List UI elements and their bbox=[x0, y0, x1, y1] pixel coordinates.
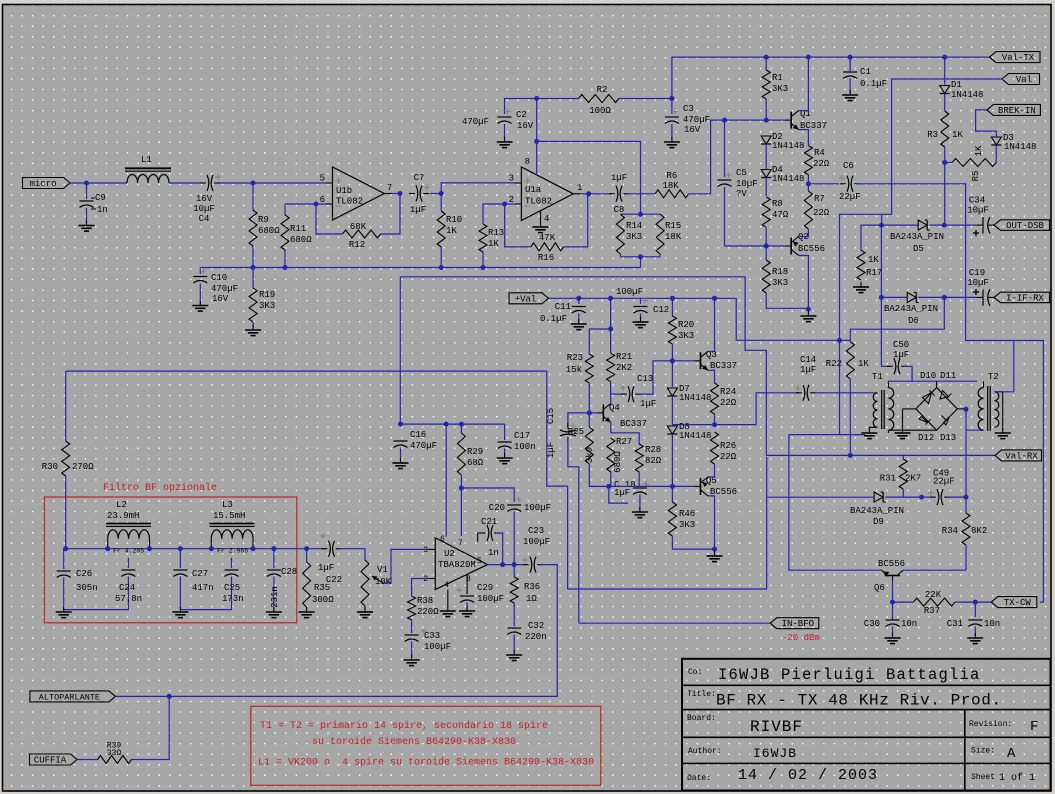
svg-text:C6: C6 bbox=[843, 161, 854, 171]
junction pin2 node bbox=[502, 202, 507, 207]
svg-text:33Ω: 33Ω bbox=[107, 749, 122, 758]
svg-text:C22: C22 bbox=[326, 575, 342, 585]
svg-text:C25: C25 bbox=[224, 583, 240, 593]
svg-text:D10: D10 bbox=[920, 371, 936, 381]
svg-text:R7: R7 bbox=[814, 194, 825, 204]
resistor R6 bbox=[655, 171, 688, 198]
transistor Q4 bbox=[597, 403, 647, 429]
junction Q2 gnd bbox=[806, 307, 811, 312]
transistor Q1 bbox=[785, 109, 827, 131]
wire IN-BFO to C15 bbox=[579, 622, 771, 624]
svg-text:1n: 1n bbox=[488, 548, 499, 558]
svg-text:1N4148: 1N4148 bbox=[679, 431, 711, 441]
wire Q2 base rail bbox=[725, 245, 786, 247]
svg-text:IN-BFO: IN-BFO bbox=[782, 619, 814, 629]
wire bridge to T2 bottom bbox=[966, 429, 984, 431]
ground under R35 bbox=[299, 607, 315, 618]
svg-text:22Ω: 22Ω bbox=[813, 208, 830, 218]
svg-text:100µF: 100µF bbox=[424, 642, 451, 652]
capacitor C18 bbox=[609, 480, 649, 510]
svg-text:R20: R20 bbox=[678, 320, 694, 330]
label Filtro BF opzionale bbox=[103, 482, 217, 494]
junction R14R15 top bbox=[638, 212, 643, 217]
capacitor C3 bbox=[665, 99, 710, 140]
svg-text:Q6: Q6 bbox=[874, 583, 885, 593]
ground under C17 bbox=[497, 453, 513, 464]
junction +Val R21 bbox=[608, 296, 613, 301]
resistor R5 bbox=[945, 145, 997, 181]
svg-text:L1 = VK200 o 4 spire su toroi: L1 = VK200 o 4 spire su toroide Siemens … bbox=[258, 757, 594, 769]
junction C2 R2 bbox=[534, 96, 539, 101]
transistor Q3 bbox=[695, 350, 738, 371]
svg-text:R29: R29 bbox=[467, 447, 483, 457]
junction R18 top bbox=[764, 244, 769, 249]
resistor R30 bbox=[42, 371, 94, 549]
svg-text:57.8n: 57.8n bbox=[115, 594, 142, 604]
wire Q6 base down bbox=[892, 580, 894, 620]
capacitor C30 bbox=[864, 619, 917, 636]
wire C8 to R6 bbox=[626, 193, 655, 195]
svg-text:TX-CW: TX-CW bbox=[1004, 598, 1032, 608]
junction bridge out bbox=[964, 407, 969, 412]
svg-text:Fr 2.965: Fr 2.965 bbox=[217, 548, 248, 555]
svg-text:C10: C10 bbox=[211, 273, 227, 283]
svg-text:R38: R38 bbox=[417, 596, 433, 606]
svg-text:10n: 10n bbox=[984, 619, 1000, 629]
svg-text:300Ω: 300Ω bbox=[312, 595, 334, 605]
svg-text:1µF: 1µF bbox=[318, 563, 334, 573]
wire ALTOPARLANTE bbox=[115, 695, 169, 697]
wire R3 down bbox=[944, 163, 946, 226]
svg-text:1K: 1K bbox=[488, 239, 499, 249]
junction D1 top bbox=[942, 55, 947, 60]
junction U1a out bbox=[586, 191, 591, 196]
capacitor C12 bbox=[616, 287, 669, 320]
junction C5 top bbox=[722, 118, 727, 123]
svg-text:R24: R24 bbox=[720, 387, 736, 397]
wire T2 coil top lead bbox=[994, 391, 1013, 393]
svg-text:C23: C23 bbox=[528, 526, 544, 536]
svg-text:470µF: 470µF bbox=[462, 117, 489, 127]
svg-text:8: 8 bbox=[525, 157, 530, 167]
wire R6 up to supply node bbox=[689, 120, 787, 194]
transistor Q6 BC556 bbox=[874, 559, 905, 593]
transistor Q2 bbox=[785, 232, 825, 256]
svg-text:0.1µF: 0.1µF bbox=[540, 314, 567, 324]
svg-text:Sheet: Sheet bbox=[971, 773, 995, 782]
svg-text:F: F bbox=[1030, 719, 1038, 735]
junction node mic bbox=[84, 181, 89, 186]
svg-text:47K: 47K bbox=[539, 233, 556, 243]
wire Q4 emitter bbox=[610, 422, 612, 432]
resistor R25 bbox=[568, 413, 609, 487]
resistor R16 feedback 47K bbox=[505, 194, 588, 263]
wire micro to L1 bbox=[70, 182, 127, 184]
resistor R28 bbox=[611, 433, 662, 486]
red notes box bbox=[251, 706, 601, 785]
junction U1b out bbox=[398, 191, 403, 196]
svg-text:3k9: 3k9 bbox=[585, 447, 595, 463]
svg-text:C4: C4 bbox=[199, 214, 210, 224]
wire D8 bottom rail bbox=[609, 485, 673, 487]
wire R11 to pin6 bbox=[285, 203, 326, 205]
ground U1a pin4 bbox=[533, 222, 549, 233]
svg-text:1K: 1K bbox=[446, 226, 457, 236]
resistor R39 bbox=[98, 742, 132, 764]
svg-text:R15: R15 bbox=[665, 221, 681, 231]
svg-text:R23: R23 bbox=[567, 353, 583, 363]
svg-text:R37: R37 bbox=[924, 606, 940, 616]
resistor R3 bbox=[927, 111, 963, 163]
svg-text:15k: 15k bbox=[566, 365, 582, 375]
svg-text:1N4148: 1N4148 bbox=[772, 141, 804, 151]
svg-text:680Ω: 680Ω bbox=[258, 226, 280, 236]
junction speaker bbox=[167, 694, 172, 699]
svg-text:C19: C19 bbox=[969, 268, 985, 278]
wire Q1 collector bbox=[799, 57, 809, 111]
junction +Val R20 bbox=[670, 296, 675, 301]
svg-text:100Ω: 100Ω bbox=[589, 106, 611, 116]
svg-text:C3: C3 bbox=[683, 104, 694, 114]
ground under C3 bbox=[664, 137, 680, 148]
svg-text:3K3: 3K3 bbox=[772, 84, 788, 94]
svg-text:3K3: 3K3 bbox=[772, 278, 788, 288]
svg-text:23.9mH: 23.9mH bbox=[107, 511, 139, 521]
wire to U1a pin3 bbox=[441, 183, 515, 194]
wire pin8 node right bbox=[537, 141, 641, 214]
svg-text:231n: 231n bbox=[270, 586, 280, 608]
junction C7 out bbox=[439, 191, 444, 196]
wire Val-TX rail C1 bbox=[849, 57, 851, 68]
wire C7 to R10 node bbox=[430, 193, 441, 195]
svg-text:R3: R3 bbox=[927, 130, 938, 140]
transistor Q5 bbox=[695, 476, 738, 497]
svg-text:T2: T2 bbox=[988, 372, 999, 382]
capacitor C6 bbox=[808, 161, 860, 202]
ground under C1 bbox=[842, 90, 858, 101]
capacitor C5 bbox=[718, 120, 758, 246]
capacitor C25 bbox=[180, 558, 243, 610]
port Val-RX bbox=[995, 450, 1042, 462]
svg-text:ALTOPARLANTE: ALTOPARLANTE bbox=[39, 692, 100, 702]
svg-text:1K: 1K bbox=[974, 145, 984, 156]
wire R34 bottom to Q6 bbox=[903, 569, 966, 571]
wire C22 to V1 bbox=[339, 549, 366, 560]
wire +Val col down bbox=[789, 340, 840, 434]
svg-text:3K3: 3K3 bbox=[626, 232, 642, 242]
svg-text:3K3: 3K3 bbox=[679, 520, 695, 530]
junction C16 bbox=[398, 422, 403, 427]
svg-text:Val-RX: Val-RX bbox=[1005, 451, 1038, 461]
ground under C11 bbox=[571, 319, 587, 330]
junction L3 in bbox=[209, 546, 214, 551]
svg-text:10µF: 10µF bbox=[193, 204, 215, 214]
svg-text:1N4148: 1N4148 bbox=[1004, 142, 1036, 152]
wire pin6 vert bbox=[445, 424, 447, 537]
svg-text:R30: R30 bbox=[42, 462, 58, 472]
junction R3 R5 bbox=[942, 160, 947, 165]
wire Q4 collector bbox=[610, 394, 612, 403]
wire R14R15 to rail bbox=[640, 257, 642, 268]
svg-text:R46: R46 bbox=[679, 509, 695, 519]
junction +Val C11 bbox=[576, 296, 581, 301]
svg-text:0.1µF: 0.1µF bbox=[860, 79, 887, 89]
junction R25 R27 C18 bbox=[606, 484, 611, 489]
capacitor C17 bbox=[498, 431, 536, 456]
junction D6 left bbox=[879, 295, 884, 300]
svg-text:U1a: U1a bbox=[525, 185, 542, 195]
junction D6 right bbox=[942, 295, 947, 300]
svg-text:R12: R12 bbox=[349, 240, 365, 250]
capacitor C26 bbox=[57, 549, 98, 610]
svg-text:100µF: 100µF bbox=[616, 287, 643, 297]
wire C2 junction down bbox=[536, 99, 538, 142]
diode D8 bbox=[667, 422, 711, 485]
note L1 bbox=[258, 757, 594, 769]
resistor R35 bbox=[303, 549, 335, 610]
diode D2 bbox=[761, 132, 804, 169]
junction pin6 top bbox=[444, 422, 449, 427]
svg-text:1 of 1: 1 of 1 bbox=[999, 772, 1035, 784]
svg-text:1µF: 1µF bbox=[611, 173, 627, 183]
wire D5 to C34 bbox=[944, 224, 976, 226]
resistor R26 bbox=[711, 432, 737, 471]
wire detector to filter bbox=[66, 371, 568, 589]
junction R35 bbox=[304, 546, 309, 551]
svg-text:470µF: 470µF bbox=[211, 284, 238, 294]
junction rail R9 bbox=[251, 265, 256, 270]
svg-text:U1b: U1b bbox=[336, 186, 352, 196]
wire D5 left down to D6 bbox=[880, 225, 882, 297]
svg-text:220Ω: 220Ω bbox=[417, 607, 439, 617]
svg-text:680Ω: 680Ω bbox=[290, 235, 312, 245]
svg-text:470µF: 470µF bbox=[410, 441, 437, 451]
svg-text:22µF: 22µF bbox=[933, 477, 955, 487]
capacitor C27 bbox=[173, 549, 213, 610]
resistor R38 bbox=[408, 579, 440, 634]
svg-text:I6WJB Pierluigi Battaglia: I6WJB Pierluigi Battaglia bbox=[718, 666, 981, 684]
svg-text:R16: R16 bbox=[538, 253, 554, 263]
wire +Val col to T1 gnd bbox=[840, 434, 866, 436]
junction L2 in bbox=[105, 546, 110, 551]
svg-text:3K3: 3K3 bbox=[678, 331, 694, 341]
port +Val bbox=[509, 293, 549, 305]
inductor L3 bbox=[210, 500, 255, 555]
wire C3 node to Val-TX rail bbox=[672, 57, 990, 98]
resistor R46 bbox=[668, 486, 714, 549]
note T1 T2 line1 bbox=[260, 720, 548, 732]
svg-text:680Ω: 680Ω bbox=[613, 451, 623, 473]
wire R21 top bbox=[610, 298, 612, 329]
svg-text:3: 3 bbox=[423, 546, 428, 555]
svg-text:C29: C29 bbox=[477, 583, 493, 593]
svg-text:I-IF-RX: I-IF-RX bbox=[1006, 293, 1044, 303]
wire Val to D5 net bbox=[840, 79, 1003, 340]
svg-text:14 / 02 / 2003: 14 / 02 / 2003 bbox=[738, 767, 878, 784]
svg-text:C32: C32 bbox=[528, 621, 544, 631]
svg-text:18K: 18K bbox=[665, 232, 682, 242]
resistor R10 bbox=[437, 194, 462, 268]
junction Q4 base bbox=[587, 410, 592, 415]
ground under R19 bbox=[245, 325, 261, 336]
port CUFFIA bbox=[30, 754, 78, 766]
capacitor C14 bbox=[715, 355, 878, 425]
capacitor C16 bbox=[394, 430, 438, 461]
svg-text:R1: R1 bbox=[772, 73, 783, 83]
junction R4 R7 C6 bbox=[806, 181, 811, 186]
svg-text:4: 4 bbox=[444, 581, 449, 590]
diode D6 bbox=[881, 292, 944, 326]
wire L1 to C4 bbox=[169, 182, 200, 184]
svg-text:BA243A_PIN: BA243A_PIN bbox=[890, 232, 944, 242]
svg-text:D6: D6 bbox=[908, 316, 919, 326]
junction C1 bbox=[848, 55, 853, 60]
junction L3 out bbox=[251, 546, 256, 551]
svg-text:BC556: BC556 bbox=[798, 244, 825, 254]
svg-text:Author:: Author: bbox=[688, 747, 722, 756]
svg-text:R18: R18 bbox=[772, 267, 788, 277]
svg-text:D5: D5 bbox=[913, 244, 924, 254]
svg-text:16V: 16V bbox=[212, 294, 229, 304]
svg-text:L1: L1 bbox=[141, 155, 152, 165]
junction rail R11 bbox=[283, 265, 288, 270]
ground under V1 bbox=[357, 607, 373, 618]
wire C4 to U1b pin5 bbox=[220, 182, 326, 184]
diode D7 bbox=[667, 361, 711, 425]
capacitor C32 bbox=[507, 621, 546, 653]
svg-text:D13: D13 bbox=[940, 433, 956, 443]
junction D5 right bbox=[942, 223, 947, 228]
svg-text:T1 = T2 = primario 14 spire, s: T1 = T2 = primario 14 spire, secondario … bbox=[260, 720, 548, 732]
capacitor C7 bbox=[409, 173, 430, 215]
ground under C31 bbox=[967, 633, 983, 644]
resistor R7 bbox=[804, 184, 829, 237]
svg-text:Revision:: Revision: bbox=[969, 720, 1012, 729]
capacitor C13 bbox=[611, 361, 673, 409]
capacitor C15 bbox=[546, 408, 589, 623]
svg-text:2: 2 bbox=[423, 575, 428, 584]
svg-text:OUT-DSB: OUT-DSB bbox=[1006, 221, 1044, 231]
svg-text:R10: R10 bbox=[446, 215, 462, 225]
ground under R17 bbox=[853, 282, 869, 293]
diode D3 bbox=[976, 110, 1037, 163]
resistor R8 bbox=[762, 197, 789, 246]
svg-text:R34: R34 bbox=[942, 526, 958, 536]
title Title bbox=[687, 690, 1002, 710]
junction Q3 base node bbox=[670, 358, 675, 363]
svg-text:1µF: 1µF bbox=[800, 365, 816, 375]
svg-text:2K2: 2K2 bbox=[616, 363, 632, 373]
capacitor C9 bbox=[80, 183, 108, 224]
svg-text:305n: 305n bbox=[76, 583, 98, 593]
wire audio line to D9 bbox=[568, 457, 767, 589]
junction D9 C49 bbox=[919, 495, 924, 500]
svg-text:C27: C27 bbox=[192, 569, 208, 579]
resistor R13 bbox=[479, 204, 505, 268]
junction +Val Q3 col bbox=[712, 296, 717, 301]
svg-text:RIVBF: RIVBF bbox=[750, 718, 803, 736]
port BREK-IN bbox=[987, 104, 1041, 116]
port OUT-DSB bbox=[994, 220, 1050, 231]
svg-text:R21: R21 bbox=[616, 352, 632, 362]
svg-text:C30: C30 bbox=[864, 619, 880, 629]
svg-text:-20 dBm: -20 dBm bbox=[782, 633, 820, 643]
wire D6 net to R22 top bbox=[850, 297, 944, 341]
capacitor C8 bbox=[609, 173, 629, 215]
wire Q3 base bbox=[672, 360, 694, 362]
junction L2 out bbox=[147, 546, 152, 551]
svg-text:1Ω: 1Ω bbox=[526, 594, 537, 604]
ground under C2 bbox=[497, 137, 513, 148]
resistor R36 bbox=[510, 565, 540, 626]
resistor R9 bbox=[249, 183, 280, 268]
svg-text:2K7: 2K7 bbox=[905, 474, 921, 484]
port I-IF-RX bbox=[994, 292, 1050, 303]
capacitor C21 bbox=[478, 517, 503, 565]
svg-text:I6WJB: I6WJB bbox=[753, 746, 797, 761]
resistor R2 bbox=[537, 85, 672, 116]
wire ground rail bbox=[200, 267, 640, 269]
svg-text:47Ω: 47Ω bbox=[772, 210, 789, 220]
svg-text:22Ω: 22Ω bbox=[720, 398, 737, 408]
resistor R12 feedback bbox=[316, 194, 400, 251]
svg-text:D12: D12 bbox=[918, 433, 934, 443]
ground under Q5 bbox=[707, 551, 723, 562]
svg-text:1µF: 1µF bbox=[546, 442, 556, 458]
svg-text:15.5mH: 15.5mH bbox=[213, 511, 245, 521]
svg-text:R4: R4 bbox=[814, 148, 825, 158]
svg-text:U2: U2 bbox=[444, 549, 455, 559]
svg-text:R19: R19 bbox=[259, 290, 275, 300]
transformer T2 bbox=[978, 372, 1003, 431]
capacitor C29 bbox=[456, 575, 504, 609]
note T1 T2 line2 bbox=[312, 736, 516, 748]
potentiometer V1 bbox=[361, 549, 429, 610]
svg-text:4: 4 bbox=[544, 214, 549, 224]
junction node R9 top bbox=[251, 181, 256, 186]
resistor R14 R15 pair top bbox=[620, 213, 660, 215]
resistor R11 bbox=[281, 204, 312, 268]
diode D9 bbox=[850, 492, 922, 527]
ground U2 pin4 bbox=[440, 590, 456, 617]
svg-text:1µF: 1µF bbox=[614, 488, 630, 498]
svg-text:6: 6 bbox=[440, 535, 445, 544]
capacitor C34 bbox=[967, 196, 994, 237]
wire Q5 base bbox=[672, 485, 694, 487]
junction R37 C31 bbox=[973, 600, 978, 605]
junction D5 left bbox=[879, 223, 884, 228]
svg-text:R36: R36 bbox=[524, 582, 540, 592]
svg-text:10µF: 10µF bbox=[967, 278, 989, 288]
svg-text:8K2: 8K2 bbox=[971, 526, 987, 536]
svg-text:100µF: 100µF bbox=[477, 594, 504, 604]
svg-text:1K: 1K bbox=[952, 130, 963, 140]
junction C3 R2 bbox=[669, 96, 674, 101]
diode D5 bbox=[881, 220, 944, 254]
wire D7 D8 to R24 R26 bbox=[672, 424, 714, 426]
junction R29 top bbox=[459, 422, 464, 427]
junction pin8 node bbox=[534, 139, 539, 144]
ground under C9 bbox=[79, 221, 95, 232]
svg-text:5: 5 bbox=[477, 557, 482, 566]
svg-text:V1: V1 bbox=[377, 565, 388, 575]
title Author bbox=[688, 746, 1016, 762]
svg-text:C11: C11 bbox=[555, 302, 571, 312]
inductor L1 bbox=[125, 155, 171, 183]
resistor R21 bbox=[607, 329, 633, 394]
svg-text:C28: C28 bbox=[281, 567, 297, 577]
svg-text:82Ω: 82Ω bbox=[645, 456, 662, 466]
